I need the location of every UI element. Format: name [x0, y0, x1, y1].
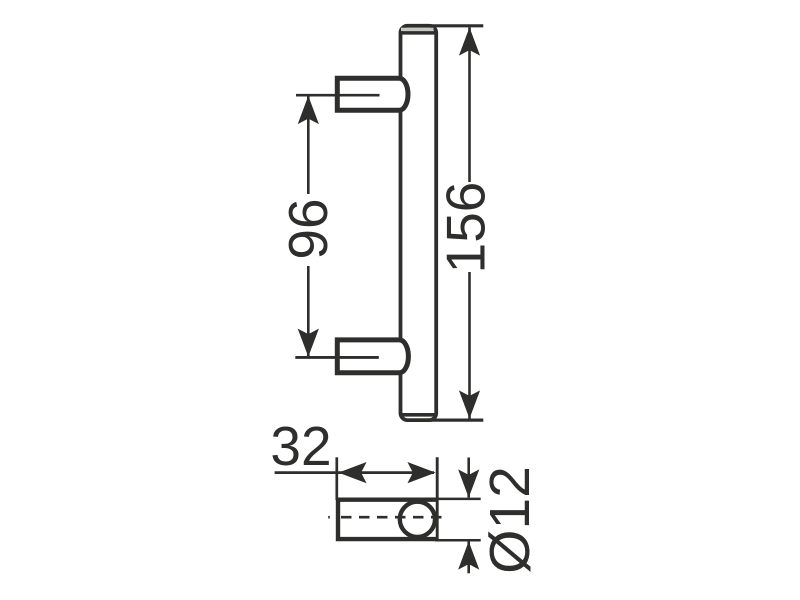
dimension line 156 upper segment	[468, 27, 471, 182]
arrow 32 left	[338, 462, 366, 483]
arrow 96 bottom	[298, 329, 319, 357]
arrow 156 top	[459, 27, 480, 55]
svg-text:96: 96	[277, 198, 339, 259]
extension line top of bar (156)	[430, 24, 483, 27]
svg-text:Ø12: Ø12	[478, 466, 542, 574]
dimension line O12 upper segment	[467, 458, 470, 498]
extension line top post center (96)	[296, 94, 380, 97]
extension line bottom (O12)	[435, 539, 481, 542]
arrow O12 top pointing down	[458, 469, 479, 497]
extension line left (32) through rect	[335, 457, 338, 500]
bottom view: base rectangle (left, top, bottom thick sides)	[338, 500, 437, 539]
dimension line 96 upper segment	[307, 96, 310, 194]
arrow 156 bottom	[459, 390, 480, 418]
svg-text:32: 32	[270, 415, 331, 477]
svg-text:156: 156	[435, 182, 497, 274]
handle bar body (side view)	[401, 26, 437, 420]
dimension line 96 lower segment	[307, 266, 310, 357]
bottom mounting post	[337, 340, 408, 373]
extension line bottom of bar (156)	[430, 418, 483, 421]
dimension line O12 lower segment	[467, 542, 470, 574]
bottom view: post circle	[400, 502, 435, 537]
dimension line 32 with left leader	[275, 471, 434, 474]
extension line right (32) through rect	[436, 457, 439, 541]
bottom cap seam line	[401, 413, 435, 417]
dimension line 156 lower segment	[468, 272, 471, 419]
arrow O12 bottom pointing up	[458, 541, 479, 569]
arrow 96 top	[298, 96, 319, 124]
top mounting post	[337, 78, 408, 110]
extension line bottom post center (96)	[295, 356, 379, 359]
top cap gray band	[401, 28, 434, 31]
arrow 32 right	[407, 462, 435, 483]
extension line top (O12)	[435, 498, 481, 501]
dashed centerline	[328, 516, 330, 519]
top cap seam line	[401, 31, 435, 35]
